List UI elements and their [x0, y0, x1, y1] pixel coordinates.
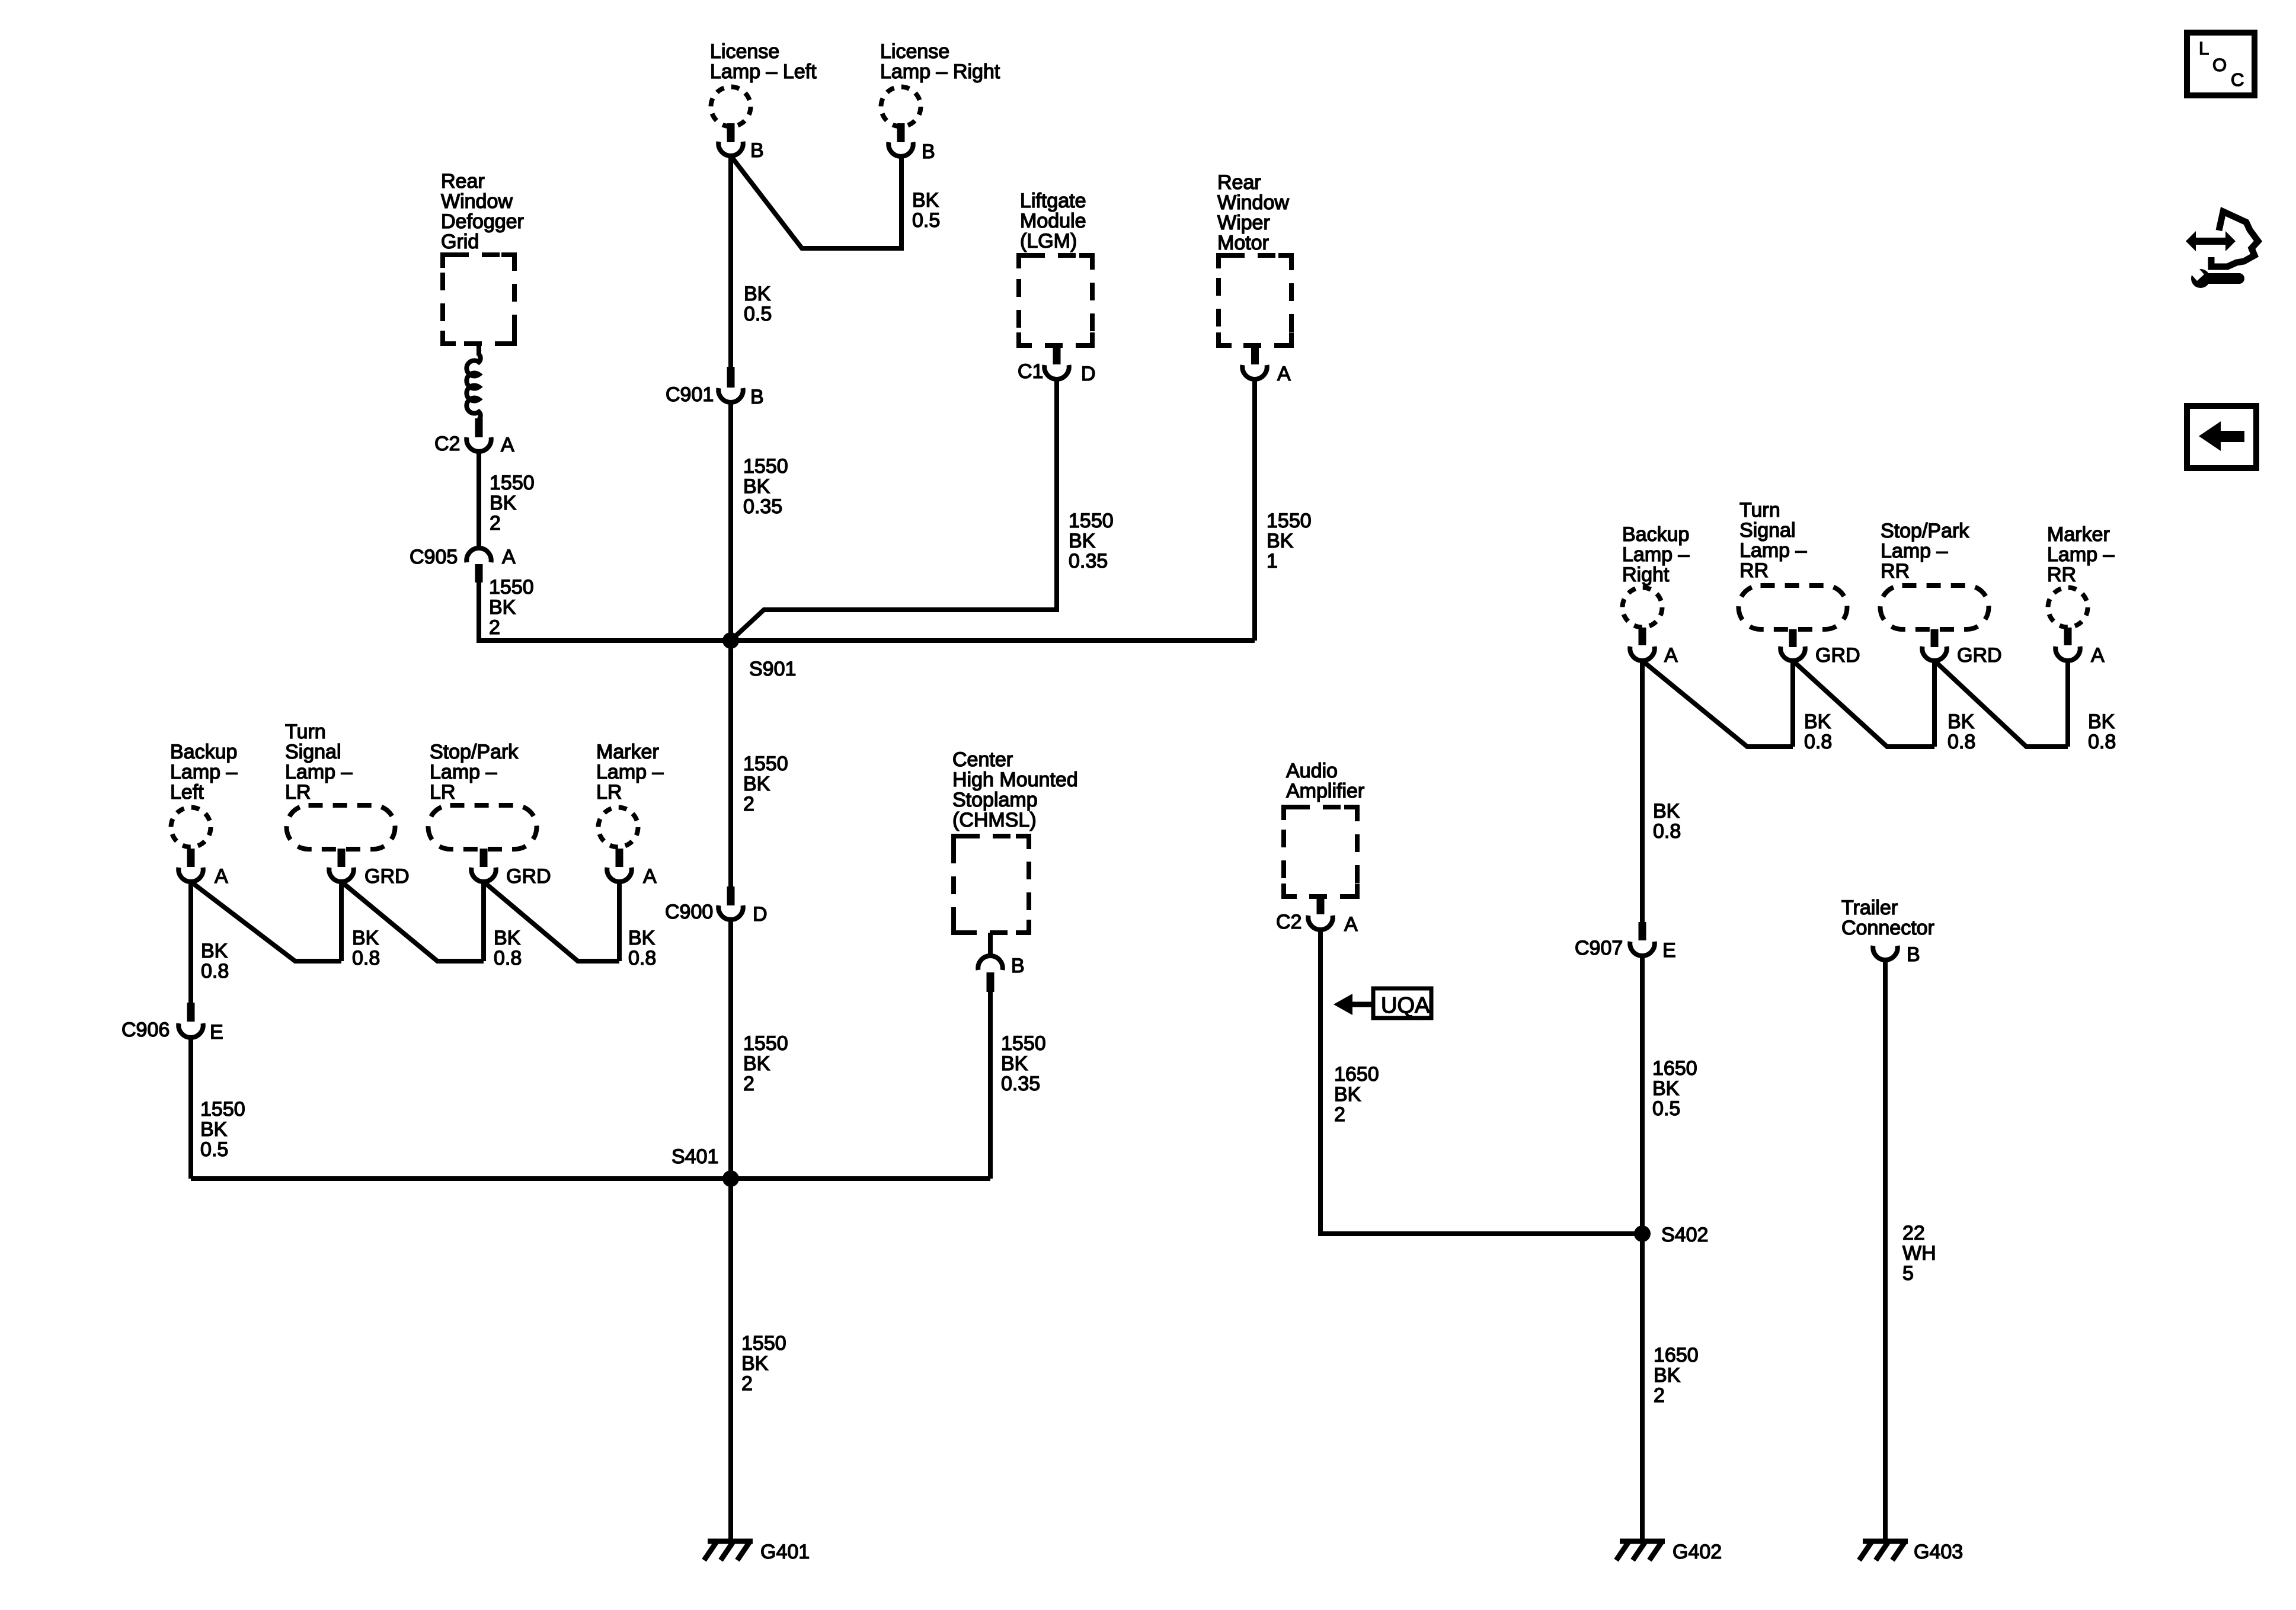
wire CHMSL box to pin B — [988, 933, 993, 956]
lamp E3 Backup Lamp - Left — [170, 741, 237, 847]
svg-text:BK: BK — [490, 492, 517, 514]
svg-text:C2: C2 — [1276, 911, 1302, 933]
svg-text:Lamp –: Lamp – — [285, 761, 352, 783]
connector C2 pin A of Audio Amplifier — [1276, 897, 1358, 936]
svg-text:B: B — [922, 140, 935, 163]
svg-text:0.8: 0.8 — [2088, 731, 2116, 753]
svg-text:RR: RR — [2047, 564, 2076, 586]
value label 1550 BK 2 wire S401-G401 — [741, 1332, 786, 1395]
svg-text:A: A — [215, 865, 228, 888]
wire zigzag Turn RR to Stop/Park RR leg — [1793, 661, 1934, 747]
wire Trailer Connector B to G403 — [1883, 960, 1888, 1541]
svg-text:0.8: 0.8 — [1948, 731, 1975, 753]
legend back-arrow box icon — [2187, 406, 2256, 468]
svg-text:C906: C906 — [121, 1019, 170, 1041]
option flag UQA with arrow — [1334, 988, 1431, 1018]
svg-text:BK: BK — [352, 927, 379, 949]
legend LOC box icon — [2187, 33, 2255, 95]
wire Wiper Motor A to S901 bus — [1252, 379, 1257, 641]
wire License Left B to C901 — [728, 156, 733, 367]
svg-text:Lamp – Right: Lamp – Right — [880, 60, 1000, 83]
svg-text:BK: BK — [201, 940, 228, 962]
pin B of License Lamp - Right — [888, 123, 935, 163]
svg-text:BK: BK — [1069, 530, 1096, 552]
value label BK 0.8 stop/park RR — [1948, 710, 1975, 753]
svg-text:GRD: GRD — [364, 865, 410, 888]
wire C901 to S901 — [728, 402, 733, 641]
lamp E4 Turn Signal Lamp - LR — [285, 721, 395, 849]
svg-text:C2: C2 — [434, 433, 460, 455]
svg-text:Rear: Rear — [1217, 171, 1261, 194]
value label 1650 BK 0.5 wire C907-S402 — [1652, 1057, 1697, 1120]
ground G403 — [1859, 1541, 1963, 1563]
svg-text:0.8: 0.8 — [1804, 731, 1832, 753]
svg-text:LR: LR — [596, 781, 622, 804]
value label 1550 BK 1 wiper wire — [1267, 510, 1312, 572]
wire S401 to G401 — [728, 1179, 733, 1541]
svg-text:BK: BK — [628, 927, 655, 949]
svg-text:S401: S401 — [671, 1145, 718, 1168]
svg-text:B: B — [750, 386, 764, 408]
svg-text:Signal: Signal — [285, 741, 341, 763]
svg-text:1550: 1550 — [743, 455, 788, 478]
svg-text:Center: Center — [952, 748, 1013, 771]
svg-text:Signal: Signal — [1739, 519, 1796, 542]
svg-text:E: E — [1662, 939, 1676, 962]
pin B of CHMSL — [978, 955, 1024, 992]
svg-text:G402: G402 — [1673, 1541, 1722, 1563]
svg-text:Lamp –: Lamp – — [596, 761, 663, 783]
svg-text:D: D — [753, 903, 768, 926]
svg-text:Window: Window — [441, 190, 513, 213]
svg-text:A: A — [2091, 644, 2105, 667]
svg-text:BK: BK — [1654, 1364, 1681, 1387]
svg-text:BK: BK — [1334, 1083, 1361, 1106]
value label 1550 BK 0.35 LGM wire — [1069, 510, 1114, 572]
svg-text:0.5: 0.5 — [912, 209, 940, 232]
svg-text:RR: RR — [1739, 559, 1769, 582]
value label 1550 BK 2 wire C900-S401 — [743, 1032, 788, 1095]
splice S901 — [722, 632, 796, 680]
svg-text:0.8: 0.8 — [494, 947, 522, 969]
svg-text:0.5: 0.5 — [200, 1138, 228, 1161]
svg-text:0.5: 0.5 — [744, 303, 772, 325]
svg-text:BK: BK — [494, 927, 521, 949]
wire CHMSL B to S401 bus — [988, 992, 993, 1179]
svg-text:B: B — [1011, 955, 1025, 977]
splice S401 — [671, 1145, 739, 1187]
svg-text:0.8: 0.8 — [352, 947, 380, 969]
svg-text:2: 2 — [1334, 1103, 1345, 1126]
svg-text:WH: WH — [1902, 1242, 1936, 1265]
wire zigzag Stop/Park RR to Marker RR leg — [1934, 661, 2068, 747]
svg-text:(CHMSL): (CHMSL) — [952, 809, 1037, 831]
svg-text:A: A — [502, 546, 516, 568]
value label 1550 BK 0.35 wire C901-S901 — [743, 455, 788, 518]
svg-text:A: A — [1277, 363, 1291, 385]
svg-text:BK: BK — [741, 1352, 769, 1375]
wire Marker RR A leg — [2065, 661, 2070, 747]
svg-text:C901: C901 — [666, 383, 714, 406]
wire zigzag Turn to Stop/Park leg — [341, 882, 484, 961]
splice S402 — [1634, 1224, 1708, 1246]
lamp E2 License Lamp - Right — [880, 40, 1000, 127]
svg-text:C905: C905 — [410, 546, 458, 568]
ground G401 — [704, 1541, 810, 1563]
value label BK 0.8 stop/park LR — [494, 927, 522, 969]
lamp E9 Stop/Park Lamp - RR — [1881, 520, 1989, 629]
svg-text:License: License — [710, 40, 779, 63]
svg-text:1550: 1550 — [741, 1332, 786, 1355]
pin GRD of Stop/Park Lamp - LR — [471, 849, 551, 888]
svg-text:Lamp –: Lamp – — [2047, 543, 2114, 566]
svg-text:2: 2 — [743, 793, 754, 815]
svg-text:22: 22 — [1902, 1222, 1925, 1244]
value label BK 0.5 left license wire — [744, 283, 772, 325]
svg-text:Lamp –: Lamp – — [170, 761, 237, 783]
svg-text:C: C — [2231, 69, 2244, 90]
legend body-repair icon double arrow — [2186, 231, 2236, 251]
svg-text:Grid: Grid — [441, 231, 479, 253]
svg-text:Stop/Park: Stop/Park — [1881, 520, 1969, 542]
wire Stop/Park RR GRD leg — [1932, 661, 1937, 747]
svg-text:RR: RR — [1881, 560, 1910, 582]
wire S402 to G402 — [1640, 1234, 1645, 1541]
legend body-repair icon wrench — [2188, 264, 2239, 288]
svg-text:BK: BK — [489, 596, 516, 619]
svg-text:B: B — [1907, 943, 1920, 966]
wire License Left B to License Right B — [731, 156, 901, 248]
svg-text:BK: BK — [744, 283, 771, 305]
svg-text:Lamp –: Lamp – — [1881, 540, 1948, 562]
svg-text:A: A — [643, 865, 657, 888]
pin A of Backup Lamp - Left — [178, 849, 228, 888]
svg-text:0.35: 0.35 — [743, 495, 782, 518]
svg-text:GRD: GRD — [1815, 644, 1860, 667]
svg-text:BK: BK — [743, 475, 770, 498]
svg-text:Lamp –: Lamp – — [1622, 543, 1689, 566]
svg-text:BK: BK — [1001, 1052, 1028, 1075]
svg-text:0.5: 0.5 — [1652, 1097, 1680, 1120]
svg-text:Lamp –: Lamp – — [430, 761, 497, 783]
svg-text:Window: Window — [1217, 191, 1289, 214]
svg-text:Module: Module — [1020, 210, 1086, 232]
value label 1550 BK 0.35 CHMSL wire — [1001, 1032, 1046, 1095]
lamp E8 Turn Signal Lamp - RR — [1739, 499, 1847, 629]
svg-text:GRD: GRD — [1957, 644, 2002, 667]
svg-text:S402: S402 — [1661, 1224, 1708, 1246]
svg-text:BK: BK — [1948, 710, 1975, 733]
component Audio Amplifier — [1284, 760, 1364, 897]
value label BK 0.8 turn signal LR — [352, 927, 380, 969]
defogger grid element coil — [466, 354, 480, 420]
lamp E7 Backup Lamp - Right — [1622, 523, 1689, 628]
svg-text:High Mounted: High Mounted — [952, 769, 1078, 791]
svg-text:Defogger: Defogger — [441, 210, 524, 233]
svg-text:Left: Left — [170, 781, 204, 804]
wire main ground bus through S901 — [479, 638, 1255, 643]
wire C906 to S401 bus — [188, 1038, 193, 1179]
svg-text:BK: BK — [912, 189, 939, 212]
svg-text:1550: 1550 — [1069, 510, 1114, 532]
value label 1550 BK 2 wire C905-S901 — [489, 576, 534, 639]
ground G402 — [1616, 1541, 1722, 1563]
component Center High Mounted Stoplamp (CHMSL) — [952, 748, 1078, 933]
svg-text:Marker: Marker — [2047, 523, 2110, 546]
svg-text:Lamp –: Lamp – — [1739, 539, 1806, 562]
pin A of Marker Lamp - RR — [2055, 628, 2105, 667]
svg-text:1550: 1550 — [1267, 510, 1312, 532]
svg-text:A: A — [501, 434, 514, 456]
svg-text:1550: 1550 — [490, 472, 535, 494]
svg-text:C900: C900 — [665, 901, 713, 923]
svg-text:BK: BK — [200, 1118, 228, 1141]
value label BK 0.8 marker LR — [628, 927, 656, 969]
svg-text:BK: BK — [2088, 710, 2115, 733]
svg-text:Lamp – Left: Lamp – Left — [710, 60, 817, 83]
svg-text:Stop/Park: Stop/Park — [430, 741, 519, 763]
svg-text:Motor: Motor — [1217, 232, 1269, 254]
svg-text:S901: S901 — [749, 658, 796, 680]
wire C2 to C905 — [477, 452, 481, 548]
wire Turn Signal GRD leg — [339, 882, 344, 961]
lamp E5 Stop/Park Lamp - LR — [428, 741, 537, 849]
wire zigzag Backup Right to Turn RR leg — [1642, 661, 1793, 747]
svg-text:(LGM): (LGM) — [1020, 230, 1077, 252]
ICONS-SECTION — [2186, 33, 2258, 468]
svg-text:1650: 1650 — [1334, 1063, 1379, 1086]
wire Turn RR GRD leg — [1790, 661, 1795, 747]
svg-text:C907: C907 — [1575, 937, 1623, 959]
value label BK 0.5 right license wire — [912, 189, 940, 232]
svg-text:LR: LR — [285, 781, 311, 804]
component Rear Window Wiper Motor — [1217, 171, 1291, 345]
svg-text:L: L — [2199, 38, 2209, 59]
wire C900 to S401 — [728, 920, 733, 1179]
wire C905 to S901 — [479, 582, 731, 641]
value label 1650 BK 2 wire S402-G402 — [1654, 1344, 1699, 1407]
pin GRD of Turn Signal Lamp - RR — [1780, 629, 1860, 667]
svg-text:2: 2 — [490, 512, 501, 534]
svg-text:Backup: Backup — [1622, 523, 1689, 546]
pin B of License Lamp - Left — [718, 123, 763, 162]
connector C905 pin A — [410, 546, 516, 582]
wire S901 to C900 — [728, 641, 733, 886]
svg-text:Trailer: Trailer — [1841, 897, 1898, 919]
wire Marker A leg — [617, 882, 622, 961]
svg-text:1550: 1550 — [200, 1098, 245, 1121]
component Rear Window Defogger Grid — [441, 170, 524, 344]
svg-text:G403: G403 — [1914, 1541, 1963, 1563]
wire Audio Amplifier C2-A to S402 — [1320, 930, 1642, 1234]
value label 22 WH 5 trailer wire — [1902, 1222, 1936, 1285]
connector C907 pin E — [1575, 922, 1676, 962]
lamp E1 License Lamp - Left — [710, 40, 817, 127]
value label 1550 BK 0.5 wire C906-S401 — [200, 1098, 245, 1161]
svg-text:0.35: 0.35 — [1001, 1073, 1040, 1095]
wire defogger box to coil — [477, 344, 481, 356]
svg-text:1550: 1550 — [743, 1032, 788, 1055]
svg-text:E: E — [210, 1021, 223, 1044]
svg-text:Turn: Turn — [285, 721, 326, 743]
value label 1650 BK 2 audio wire — [1334, 1063, 1379, 1126]
wire Backup Right A down to C907 — [1640, 661, 1645, 922]
svg-text:BK: BK — [1652, 1077, 1680, 1100]
svg-text:1550: 1550 — [489, 576, 534, 598]
svg-text:BK: BK — [1653, 800, 1680, 822]
pin GRD of Stop/Park Lamp - RR — [1922, 629, 2001, 667]
svg-text:Amplifier: Amplifier — [1286, 780, 1364, 802]
connector C900 pin D — [665, 886, 768, 926]
svg-text:Backup: Backup — [170, 741, 237, 763]
pin A of Rear Window Wiper Motor — [1242, 345, 1291, 385]
component Liftgate Module (LGM) — [1019, 190, 1092, 345]
svg-text:Audio: Audio — [1286, 760, 1338, 782]
wire LGM C1-D to S901 — [732, 379, 1057, 639]
wire C907 to S402 — [1640, 956, 1645, 1234]
connector C1 pin D of LGM — [1018, 345, 1096, 385]
svg-text:1650: 1650 — [1654, 1344, 1699, 1366]
svg-text:2: 2 — [1654, 1384, 1665, 1407]
value label 1550 BK 2 wire S901-C900 — [743, 753, 788, 815]
svg-text:2: 2 — [489, 616, 500, 639]
pin A of Marker Lamp - LR — [607, 849, 657, 888]
pin B of Trailer Connector — [1873, 943, 1920, 966]
svg-text:0.8: 0.8 — [628, 947, 656, 969]
svg-text:B: B — [750, 139, 764, 162]
wire zigzag Backup-A to Turn Signal leg — [191, 882, 341, 961]
svg-text:0.35: 0.35 — [1069, 550, 1108, 572]
svg-text:Right: Right — [1622, 564, 1670, 586]
svg-text:1: 1 — [1267, 550, 1278, 572]
svg-text:1550: 1550 — [743, 753, 788, 775]
svg-text:2: 2 — [741, 1372, 753, 1395]
wire Backup Left A down to C906 — [188, 882, 193, 1003]
RIGHT-SECTION — [1276, 499, 2116, 1563]
pin GRD of Turn Signal Lamp - LR — [329, 849, 409, 888]
svg-text:0.8: 0.8 — [1653, 820, 1681, 843]
svg-text:Turn: Turn — [1739, 499, 1780, 521]
svg-text:LR: LR — [430, 781, 455, 804]
wire zigzag Stop/Park to Marker leg — [484, 882, 619, 961]
svg-text:A: A — [1664, 644, 1678, 667]
svg-text:License: License — [880, 40, 949, 63]
connector C906 pin E — [121, 1003, 223, 1044]
pin A of Backup Lamp - Right — [1630, 628, 1678, 667]
svg-text:O: O — [2212, 55, 2227, 75]
wire S401 ground bus left to C906 leg and right to CHMSL leg — [191, 1176, 990, 1181]
svg-text:1650: 1650 — [1652, 1057, 1697, 1080]
component Trailer Connector — [1841, 897, 1934, 939]
MAIN-LEFT-SECTION — [121, 40, 1312, 1563]
svg-text:0.8: 0.8 — [201, 960, 229, 982]
svg-text:BK: BK — [1804, 710, 1831, 733]
svg-text:Liftgate: Liftgate — [1020, 190, 1086, 212]
svg-text:G401: G401 — [760, 1541, 810, 1563]
svg-text:Wiper: Wiper — [1217, 212, 1270, 234]
svg-text:5: 5 — [1902, 1262, 1914, 1285]
svg-text:BK: BK — [743, 773, 770, 795]
value label 1550 BK 2 wire C2-C905 — [490, 472, 535, 534]
svg-text:A: A — [1344, 913, 1358, 936]
value label BK 0.8 marker RR — [2088, 710, 2116, 753]
legend body-repair icon outline — [2211, 212, 2258, 267]
svg-text:Rear: Rear — [441, 170, 485, 193]
svg-text:1550: 1550 — [1001, 1032, 1046, 1055]
wire Stop/Park GRD leg — [481, 882, 486, 961]
svg-text:BK: BK — [1267, 530, 1294, 552]
lamp E10 Marker Lamp - RR — [2047, 523, 2114, 628]
connector C901 pin B — [666, 367, 764, 408]
svg-text:D: D — [1081, 363, 1096, 385]
svg-text:C1: C1 — [1018, 360, 1043, 383]
svg-text:Stoplamp: Stoplamp — [952, 789, 1038, 811]
svg-text:2: 2 — [743, 1073, 754, 1095]
value label BK 0.8 backup right wire — [1653, 800, 1681, 843]
svg-text:BK: BK — [743, 1052, 770, 1075]
lamp E6 Marker Lamp - LR — [596, 741, 663, 847]
svg-text:Connector: Connector — [1841, 917, 1934, 939]
svg-text:Marker: Marker — [596, 741, 659, 763]
svg-text:GRD: GRD — [506, 865, 551, 888]
connector C2 pin A of defogger — [434, 418, 514, 456]
value label BK 0.8 turn RR — [1804, 710, 1832, 753]
svg-text:UQA: UQA — [1381, 993, 1430, 1018]
value label BK 0.8 backup left wire — [201, 940, 229, 982]
